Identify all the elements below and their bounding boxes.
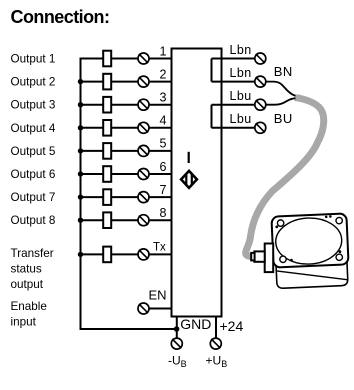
- terminal X9 Tx: [138, 249, 149, 260]
- connector barrel: [254, 251, 264, 261]
- label Enable input: [11, 300, 47, 329]
- junction on bus row 6: [78, 171, 83, 176]
- wire output 8 row: [81, 219, 104, 221]
- wire Lbn row 1: [212, 58, 255, 60]
- connector flange: [265, 244, 274, 273]
- wire EN row: [149, 308, 172, 310]
- resistor R1: [103, 51, 111, 67]
- svg-text:2: 2: [160, 67, 167, 81]
- sensor face plate: [271, 213, 348, 267]
- junction on bus row 5: [78, 148, 83, 153]
- junction on bus row 2: [78, 79, 83, 84]
- sensor body seam: [276, 268, 348, 283]
- sensor device group: [271, 213, 349, 288]
- wire Lbu row 3: [212, 104, 255, 106]
- svg-text:output: output: [11, 278, 44, 291]
- wire bottom bus horizontal: [80, 328, 177, 330]
- wire output 6 row: [81, 173, 104, 175]
- wire GND drop: [176, 317, 178, 339]
- svg-text:4: 4: [160, 114, 167, 128]
- wire +24 drop: [215, 317, 217, 339]
- resistor R4: [103, 120, 111, 136]
- cable gray to sensor: [246, 98, 324, 257]
- terminal X11 Lbn: [255, 53, 266, 64]
- wire output 2 row: [81, 81, 104, 83]
- terminal X15 -UB: [171, 338, 182, 349]
- svg-text:EN: EN: [149, 288, 167, 303]
- junction GND bus: [174, 326, 180, 332]
- svg-text:Output 7: Output 7: [11, 191, 56, 204]
- terminal X2: [138, 76, 149, 87]
- connector tip: [251, 253, 254, 261]
- terminal X6: [138, 169, 149, 180]
- svg-text:BN: BN: [274, 64, 293, 79]
- sensor body lower: [276, 260, 348, 288]
- shadow dot top: [325, 216, 328, 219]
- svg-text:Lbu: Lbu: [230, 89, 252, 103]
- sensor input symbol I: [188, 152, 190, 163]
- terminal X5: [138, 145, 149, 156]
- junction on bus row 7: [78, 194, 83, 199]
- junction on bus Tx row: [78, 252, 83, 257]
- screw hole bottom-right: [336, 254, 343, 261]
- svg-text:7: 7: [160, 183, 167, 197]
- internal bridge Lbn pair: [211, 59, 213, 82]
- svg-text:1: 1: [160, 44, 167, 58]
- screw hole top-right: [336, 217, 343, 224]
- svg-text:Connection:: Connection:: [11, 7, 110, 27]
- label Transfer status output: [11, 247, 54, 291]
- svg-text:8: 8: [160, 206, 167, 220]
- svg-text:+UB: +UB: [206, 354, 228, 370]
- svg-text:Tx: Tx: [153, 241, 166, 253]
- terminal X4: [138, 122, 149, 133]
- svg-text:Output 1: Output 1: [11, 53, 56, 66]
- wire output 7 row: [81, 196, 104, 198]
- svg-text:+24: +24: [220, 318, 244, 334]
- internal bridge Lbu pair: [211, 105, 213, 128]
- junction on bus row 3: [78, 102, 83, 107]
- svg-text:3: 3: [160, 91, 167, 105]
- shadow dot bottom: [290, 259, 293, 262]
- svg-text:Output 2: Output 2: [11, 76, 56, 89]
- terminal X7: [138, 192, 149, 203]
- wire BU: [266, 98, 296, 104]
- svg-text:Output 3: Output 3: [11, 99, 56, 112]
- junction on bus row 8: [78, 218, 83, 223]
- terminal X12 Lbn: [255, 76, 266, 87]
- svg-text:GND: GND: [180, 316, 211, 332]
- svg-text:Enable: Enable: [11, 300, 47, 313]
- terminal X13 Lbu: [255, 99, 266, 110]
- svg-text:Output 4: Output 4: [11, 122, 56, 135]
- svg-text:input: input: [11, 316, 37, 329]
- svg-text:Output 6: Output 6: [11, 168, 56, 181]
- svg-text:-UB: -UB: [168, 354, 187, 370]
- wire Lbn row 2: [212, 81, 255, 83]
- svg-text:Output 8: Output 8: [11, 214, 56, 227]
- wire Lbu row 4: [212, 127, 255, 129]
- wire output 1 row: [81, 58, 104, 60]
- resistor R5: [103, 143, 111, 159]
- resistor R6: [103, 166, 111, 182]
- screw hole bottom-left: [280, 256, 287, 263]
- wire left bus vertical: [80, 58, 82, 330]
- resistor R9: [103, 247, 111, 263]
- terminal X3: [138, 99, 149, 110]
- svg-text:6: 6: [160, 160, 167, 174]
- wire output 5 row: [81, 150, 104, 152]
- screw hole top-left: [277, 220, 284, 227]
- device U1 terminal box: [172, 49, 222, 317]
- wire BN: [266, 82, 296, 96]
- svg-text:Transfer: Transfer: [11, 247, 54, 260]
- svg-text:Lbu: Lbu: [230, 112, 252, 126]
- sensor symbol diamond: [181, 171, 197, 188]
- resistor R3: [103, 97, 111, 113]
- wire Tx row: [81, 253, 104, 255]
- wire output 4 row: [81, 127, 104, 129]
- svg-text:BU: BU: [274, 111, 293, 126]
- shadow dot right: [338, 250, 341, 253]
- cable end square: [295, 95, 301, 101]
- resistor R8: [103, 212, 111, 228]
- sensor face circle: [275, 217, 343, 266]
- resistor R7: [103, 189, 111, 205]
- wire output 3 row: [81, 104, 104, 106]
- terminal X16 +UB: [210, 338, 221, 349]
- svg-text:Lbn: Lbn: [230, 66, 252, 80]
- svg-text:Output 5: Output 5: [11, 145, 56, 158]
- junction on bus row 4: [78, 125, 83, 130]
- terminal X8: [138, 215, 149, 226]
- svg-text:5: 5: [160, 137, 167, 151]
- svg-text:status: status: [11, 263, 42, 276]
- terminal X1: [138, 53, 149, 64]
- shadow dot left: [275, 225, 278, 228]
- svg-text:Lbn: Lbn: [230, 43, 252, 57]
- terminal X10 EN: [138, 303, 149, 314]
- resistor R2: [103, 74, 111, 90]
- terminal X14 Lbu: [255, 122, 266, 133]
